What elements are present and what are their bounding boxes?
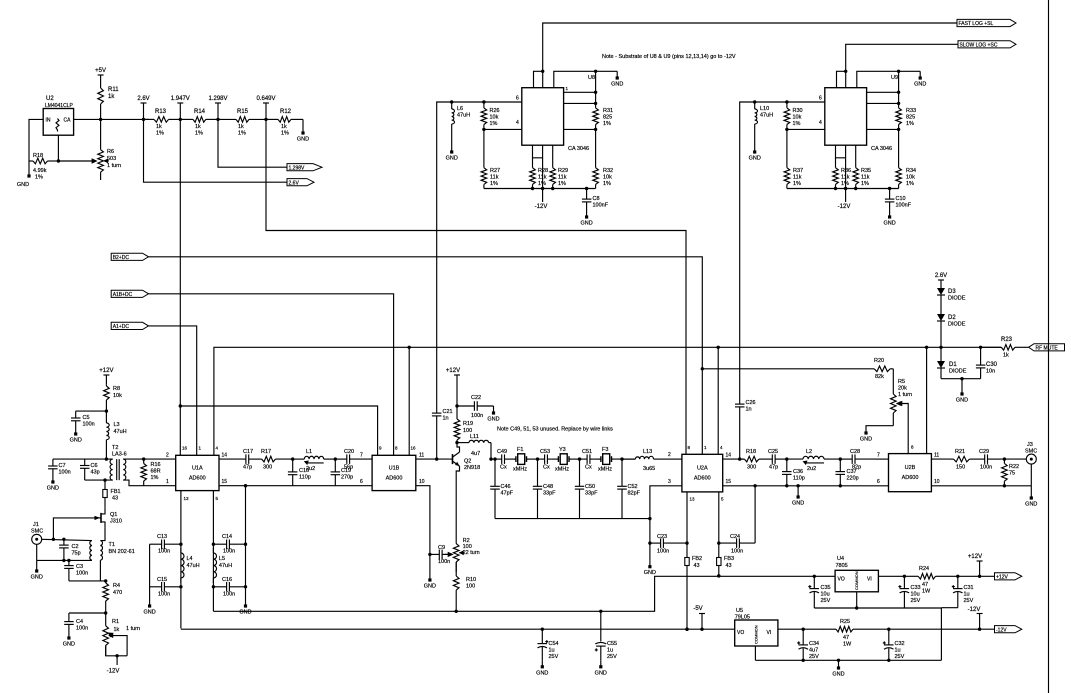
svg-text:R28: R28	[538, 168, 548, 174]
junction rail C10	[888, 187, 891, 190]
Q2 part label	[464, 465, 480, 471]
svg-text:C2: C2	[72, 544, 79, 550]
junction U8 ground run at pin1 drop	[594, 70, 597, 73]
svg-text:L4: L4	[187, 556, 193, 562]
junction C2 bottom	[62, 559, 65, 562]
capacitor C36	[782, 459, 805, 486]
wire R5 bottom to ground	[866, 426, 893, 428]
pin numbers U1A bottom	[184, 496, 219, 501]
svg-text:25V: 25V	[549, 654, 559, 660]
ground below C8	[580, 211, 592, 227]
svg-text:R33: R33	[906, 108, 916, 114]
wire U8 pin1 feedback	[564, 71, 596, 92]
junction R26 top	[482, 100, 485, 103]
svg-text:FB1: FB1	[111, 489, 121, 495]
connector FAST LOG +SL	[957, 19, 1016, 27]
+12V tick at connector	[968, 554, 983, 576]
svg-text:COMMON: COMMON	[754, 625, 759, 644]
svg-text:14: 14	[222, 453, 228, 459]
wire C3 bottom to R4 node	[69, 580, 106, 582]
wire U9 pin3 to R33 bottom	[867, 128, 899, 130]
connector B2+DC	[111, 253, 148, 261]
svg-text:DIODE: DIODE	[949, 369, 967, 375]
junction C33 top	[903, 575, 906, 578]
svg-text:AD600: AD600	[902, 475, 919, 481]
svg-text:C53: C53	[540, 449, 550, 455]
svg-text:33pF: 33pF	[543, 491, 556, 497]
svg-text:U2B: U2B	[905, 465, 916, 471]
svg-text:R21: R21	[955, 449, 965, 455]
svg-text:GND: GND	[914, 82, 926, 88]
svg-text:-12V: -12V	[107, 669, 120, 675]
junction R26 bottom	[482, 128, 485, 131]
wire shunt rail ground leg	[649, 519, 651, 561]
U4 pin name VO	[838, 577, 845, 583]
wire SLOW LOG line	[846, 44, 958, 87]
ground for C13/C15	[143, 600, 155, 616]
wire U1B pin 16 up to mute net	[408, 347, 410, 455]
svg-text:CA 3046: CA 3046	[871, 146, 892, 152]
svg-text:7805: 7805	[836, 563, 848, 569]
wire U2A pin13 down	[686, 492, 688, 629]
wire C14/C16 ground leg	[245, 544, 247, 600]
svg-text:GND: GND	[595, 670, 607, 676]
svg-text:2.6V: 2.6V	[289, 180, 300, 186]
svg-text:R11: R11	[108, 87, 119, 93]
svg-text:1%: 1%	[841, 181, 849, 187]
svg-text:11k: 11k	[841, 175, 850, 181]
capacitor C4	[64, 613, 88, 632]
wire F3 to L13	[612, 458, 635, 460]
U5 designator	[736, 608, 743, 614]
net label -12V at R1	[107, 669, 120, 675]
svg-text:R37: R37	[793, 168, 803, 174]
capacitor C32	[883, 629, 905, 660]
resistor R24	[910, 566, 950, 595]
pin numbers U1A top	[182, 446, 219, 451]
capacitor C14	[213, 534, 245, 555]
wire U2A pin 4 up to mute net	[717, 347, 719, 454]
wire U8 substrate pins	[533, 145, 543, 158]
svg-text:4.99k: 4.99k	[33, 168, 47, 174]
svg-text:D3: D3	[948, 289, 956, 295]
transistor Q2	[453, 452, 460, 466]
svg-text:1n: 1n	[746, 407, 752, 413]
svg-text:6: 6	[819, 96, 822, 102]
svg-text:100nF: 100nF	[593, 203, 609, 209]
svg-text:C6: C6	[91, 463, 98, 469]
svg-text:CA 3046: CA 3046	[568, 146, 589, 152]
svg-text:1k: 1k	[238, 124, 244, 130]
junction R33 bottom	[897, 128, 900, 131]
svg-text:C26: C26	[746, 400, 756, 406]
junction U2A output at C26 feed	[738, 457, 741, 460]
crystal filter F1	[513, 447, 528, 473]
resistor R11	[98, 86, 119, 119]
svg-text:470: 470	[113, 590, 122, 596]
svg-text:-12V: -12V	[968, 607, 981, 613]
svg-text:U1A: U1A	[192, 466, 203, 472]
svg-text:1 turn: 1 turn	[126, 626, 140, 632]
svg-text:16: 16	[411, 446, 417, 451]
resistor R23	[981, 337, 1029, 359]
svg-text:xMHz: xMHz	[598, 467, 612, 473]
wire U8 pin6 bias line	[437, 102, 522, 411]
svg-text:Note - Substrate of U8 & U9 (p: Note - Substrate of U8 & U9 (pins 12,13,…	[602, 54, 736, 60]
wire U8 pin2 to R31	[564, 102, 596, 104]
svg-text:xMHz: xMHz	[513, 467, 527, 473]
pin number U2B pin 8	[911, 445, 914, 450]
svg-text:VO: VO	[737, 630, 744, 636]
pin number U8 pin4	[516, 120, 519, 126]
svg-text:C15: C15	[157, 577, 167, 583]
svg-text:75: 75	[1009, 471, 1015, 477]
svg-text:11: 11	[934, 453, 939, 459]
regulator U5 79L05	[735, 620, 778, 646]
J3 type label	[1025, 449, 1037, 455]
svg-text:300: 300	[747, 465, 756, 471]
wire 2.6V node to connector	[144, 119, 288, 182]
svg-text:L3: L3	[114, 422, 120, 428]
op-amp U2A AD600	[682, 454, 723, 492]
J1 type label	[31, 529, 43, 535]
wire diode clamp bottom rail	[941, 378, 981, 380]
svg-text:COMMON: COMMON	[854, 571, 859, 590]
svg-text:FB2: FB2	[692, 556, 702, 562]
capacitor C37	[836, 459, 859, 486]
junction R30 bottom	[785, 128, 788, 131]
wire Q1 drain up to FB1	[104, 497, 106, 508]
junction clamp rail to ground	[960, 377, 963, 380]
ground below C55	[595, 661, 607, 677]
pin number U1A 14	[222, 453, 228, 459]
capacitor C22	[457, 395, 494, 419]
svg-text:C36: C36	[793, 469, 803, 475]
junction C37 node	[839, 457, 842, 460]
note crystal filter text	[497, 427, 613, 433]
svg-text:C17: C17	[243, 449, 253, 455]
svg-text:T2: T2	[112, 445, 118, 451]
capacitor C24	[719, 534, 755, 555]
svg-text:0.649V: 0.649V	[256, 96, 275, 102]
svg-text:R18: R18	[33, 153, 43, 159]
junction C22 tap	[455, 404, 458, 407]
svg-text:U8: U8	[588, 75, 595, 81]
node 1.947V tick	[171, 96, 190, 119]
svg-text:R32: R32	[603, 168, 613, 174]
ground below L10	[749, 147, 761, 162]
inductor L1	[293, 449, 336, 472]
svg-text:15: 15	[222, 479, 228, 485]
svg-text:1%: 1%	[490, 121, 498, 127]
svg-text:C46: C46	[501, 484, 511, 490]
svg-text:RF MUTE: RF MUTE	[1036, 345, 1059, 351]
svg-text:AD600: AD600	[189, 476, 206, 482]
junction rail R35	[854, 187, 857, 190]
wire common tie down	[940, 608, 942, 660]
svg-text:825: 825	[906, 115, 915, 121]
net label -12V at U9	[838, 204, 851, 210]
svg-text:+12V: +12V	[446, 368, 460, 374]
capacitor C10	[885, 189, 912, 212]
svg-text:R20: R20	[874, 358, 884, 364]
op-amp U2B AD600	[889, 454, 932, 492]
svg-text:82k: 82k	[875, 374, 884, 380]
svg-text:825: 825	[603, 115, 612, 121]
resistor R10	[453, 562, 476, 611]
wire U9 substrate to -12V	[845, 145, 847, 202]
inductor L2	[787, 449, 841, 472]
ferrite bead FB2	[685, 556, 702, 569]
svg-text:C4: C4	[76, 619, 83, 625]
U2 designator label	[46, 96, 54, 102]
inductor L3	[106, 411, 126, 459]
svg-text:C31: C31	[964, 585, 974, 591]
junction R4 top node	[104, 579, 107, 582]
svg-text:7: 7	[360, 453, 363, 459]
svg-text:4u7: 4u7	[809, 648, 818, 654]
capacitor C52	[617, 459, 640, 518]
svg-text:Y3: Y3	[559, 447, 566, 453]
connector A1+DC	[111, 322, 148, 330]
wire R24 to +12V connector	[950, 575, 995, 577]
trimpot R1	[103, 613, 140, 656]
svg-text:47p: 47p	[769, 465, 778, 471]
junction shunt C37 on lower rail	[839, 484, 842, 487]
resistor R15	[218, 109, 266, 137]
inductor L4	[181, 548, 200, 583]
svg-text:GND: GND	[70, 438, 82, 444]
svg-text:1%: 1%	[35, 175, 43, 181]
svg-text:GND: GND	[832, 672, 844, 678]
svg-text:11k: 11k	[558, 175, 567, 181]
svg-text:79L05: 79L05	[735, 615, 750, 621]
resistor R34	[896, 168, 916, 189]
wire A1+DC to U1A pin 1	[149, 326, 197, 455]
Q1 designator	[110, 512, 117, 518]
ground at U9 top	[914, 71, 926, 87]
svg-text:47: 47	[843, 635, 849, 641]
ground below C10	[883, 211, 895, 227]
svg-text:10: 10	[934, 479, 940, 485]
junction rail C8	[585, 187, 588, 190]
svg-text:GND: GND	[792, 501, 804, 507]
wire U2B shunt rail ground stub	[797, 486, 799, 491]
capacitor C5	[71, 411, 95, 428]
svg-text:33pF: 33pF	[585, 491, 598, 497]
wire J1 shell to ground rail	[36, 544, 38, 560]
junction U9 pin1 node	[897, 91, 900, 94]
svg-text:10u: 10u	[911, 592, 920, 598]
svg-text:6: 6	[877, 479, 880, 485]
wire U4 common pin	[856, 592, 858, 608]
junction node 1.947V	[179, 118, 182, 121]
junction rail substrate U9	[844, 187, 847, 190]
junction +12V tick	[978, 575, 981, 578]
pin number U2A 14	[726, 453, 732, 459]
junction R4 bottom / C4 line	[104, 611, 107, 614]
svg-text:1%: 1%	[603, 181, 611, 187]
svg-text:43: 43	[112, 496, 118, 502]
U4 pin name VI	[867, 577, 872, 583]
wire U8 pin4 to R26 bottom	[484, 128, 522, 130]
svg-text:R12: R12	[280, 109, 292, 115]
node 0.649V tick	[256, 96, 275, 119]
svg-text:BN 202-61: BN 202-61	[109, 549, 135, 555]
wire mute net from U1A pin 4	[214, 347, 1001, 455]
svg-text:IN: IN	[46, 118, 51, 124]
svg-text:1W: 1W	[843, 642, 852, 648]
ground below C7	[47, 476, 59, 492]
junction node 0.649V	[264, 118, 267, 121]
ground at J1	[31, 560, 43, 580]
svg-text:2: 2	[166, 453, 169, 459]
pin number U2B pin 6	[877, 479, 880, 485]
wire pin10 drop to ground	[429, 554, 431, 574]
junction rail R29	[551, 187, 554, 190]
wire U5 common pin	[754, 646, 756, 660]
wire Q2 collector up	[457, 443, 460, 453]
wire C51 to F3	[594, 458, 600, 460]
svg-text:C28: C28	[850, 449, 860, 455]
svg-text:10k: 10k	[906, 175, 915, 181]
svg-text:13: 13	[184, 496, 190, 501]
wire mute node down to D1	[940, 347, 942, 361]
junction rail R36	[834, 187, 837, 190]
svg-text:-5V: -5V	[693, 606, 702, 612]
svg-text:C8: C8	[593, 196, 600, 202]
svg-text:1.298V: 1.298V	[289, 165, 306, 171]
svg-text:1k: 1k	[1003, 353, 1009, 359]
capacitor C25	[766, 449, 787, 471]
ground below L6	[446, 147, 458, 162]
capacitor C9	[430, 545, 450, 565]
junction C34 top	[802, 628, 805, 631]
capacitor C3	[64, 560, 88, 581]
svg-text:2.6V: 2.6V	[935, 273, 947, 279]
junction FB3 line on +5V rail	[717, 574, 720, 577]
svg-text:SMC: SMC	[1025, 449, 1037, 455]
svg-text:U9: U9	[891, 75, 898, 81]
connector -12V	[995, 626, 1022, 634]
junction R22 bottom	[1003, 484, 1006, 487]
junction pin5 line at +5 rail	[717, 574, 720, 577]
svg-text:+5V: +5V	[95, 68, 106, 74]
svg-text:GND: GND	[956, 398, 968, 404]
pin number U1B 10	[419, 479, 425, 485]
svg-text:300: 300	[263, 465, 272, 471]
svg-text:C54: C54	[549, 641, 559, 647]
junction FB1 hang point	[103, 478, 106, 481]
junction C23 ground side	[648, 541, 651, 544]
svg-text:L11: L11	[470, 434, 479, 440]
junction mute net at C30	[979, 346, 982, 349]
svg-text:C29: C29	[979, 449, 989, 455]
svg-text:100: 100	[466, 584, 475, 590]
svg-text:1k: 1k	[195, 124, 201, 130]
svg-text:C20: C20	[344, 449, 354, 455]
connector 2.6V	[287, 179, 314, 187]
J3 designator	[1027, 442, 1033, 448]
svg-text:150: 150	[956, 465, 965, 471]
capacitor C16	[213, 577, 245, 598]
transformer T1	[90, 541, 103, 561]
capacitor C26	[735, 398, 756, 459]
wire R16 bottom rail to U1A pin 1	[137, 485, 176, 487]
diode D3	[937, 288, 966, 314]
junction C32 bottom	[887, 659, 890, 662]
svg-text:C34: C34	[809, 641, 819, 647]
svg-text:-12V: -12V	[535, 204, 548, 210]
svg-text:47uH: 47uH	[457, 113, 470, 119]
wire T2 secondary top to U1A pin 2	[123, 458, 176, 460]
svg-text:2u2: 2u2	[807, 466, 816, 472]
svg-text:LA3-6: LA3-6	[112, 452, 127, 458]
wire Q2 emitter down to R2	[456, 466, 459, 543]
ground below diode clamp	[956, 379, 968, 404]
junction L11 output on chain	[489, 457, 492, 460]
svg-text:GND: GND	[31, 575, 43, 581]
svg-text:1 turn: 1 turn	[107, 163, 121, 169]
svg-text:1: 1	[166, 479, 169, 485]
svg-text:R36: R36	[841, 168, 851, 174]
wire R31 bottom to R32	[595, 129, 597, 167]
svg-text:C52: C52	[628, 484, 638, 490]
svg-text:25V: 25V	[964, 598, 974, 604]
svg-text:C14: C14	[222, 534, 232, 540]
svg-text:1%: 1%	[156, 131, 164, 137]
wire U2B pin up to mute net	[926, 347, 928, 453]
U5 pin name VO	[737, 630, 744, 636]
svg-text:C7: C7	[59, 463, 66, 469]
svg-text:100n: 100n	[223, 592, 235, 598]
junction C16 leg	[244, 585, 247, 588]
svg-text:GND: GND	[611, 82, 623, 88]
svg-text:22 turn: 22 turn	[463, 550, 480, 556]
svg-text:R34: R34	[906, 168, 916, 174]
op-amp U1B AD600	[372, 455, 416, 490]
pin number U1A pin 1	[166, 479, 169, 485]
capacitor C54	[538, 629, 559, 661]
svg-text:Cx: Cx	[543, 465, 550, 471]
resistor R14	[180, 109, 218, 137]
svg-text:14: 14	[726, 453, 732, 459]
junction mute net at U1B pin 16	[408, 346, 411, 349]
wire U9 pin6 bias line	[740, 102, 825, 398]
resistor R36	[833, 158, 851, 189]
net label -5V	[693, 606, 705, 629]
junction rail R28	[531, 187, 534, 190]
svg-text:10: 10	[419, 479, 425, 485]
wire U2 bottom pin to R18 right node	[57, 135, 59, 161]
pin number U1A pin 2	[166, 453, 169, 459]
svg-text:L6: L6	[457, 106, 463, 112]
pin number U2A pin 3	[668, 479, 671, 485]
junction C19 node	[334, 457, 337, 460]
svg-text:13: 13	[690, 497, 696, 502]
pin numbers U1B top	[379, 446, 416, 451]
capacitor C19	[331, 459, 354, 486]
svg-text:R4: R4	[113, 583, 120, 589]
resistor R4	[103, 581, 122, 613]
capacitor C35	[808, 576, 830, 608]
svg-text:GND: GND	[860, 437, 872, 443]
svg-text:L10: L10	[760, 106, 769, 112]
svg-text:R31: R31	[603, 108, 613, 114]
capacitor C2	[59, 539, 81, 560]
trimpot R1 wiper arrow	[108, 633, 127, 656]
junction 1.947V line to U1B branch	[179, 404, 182, 407]
